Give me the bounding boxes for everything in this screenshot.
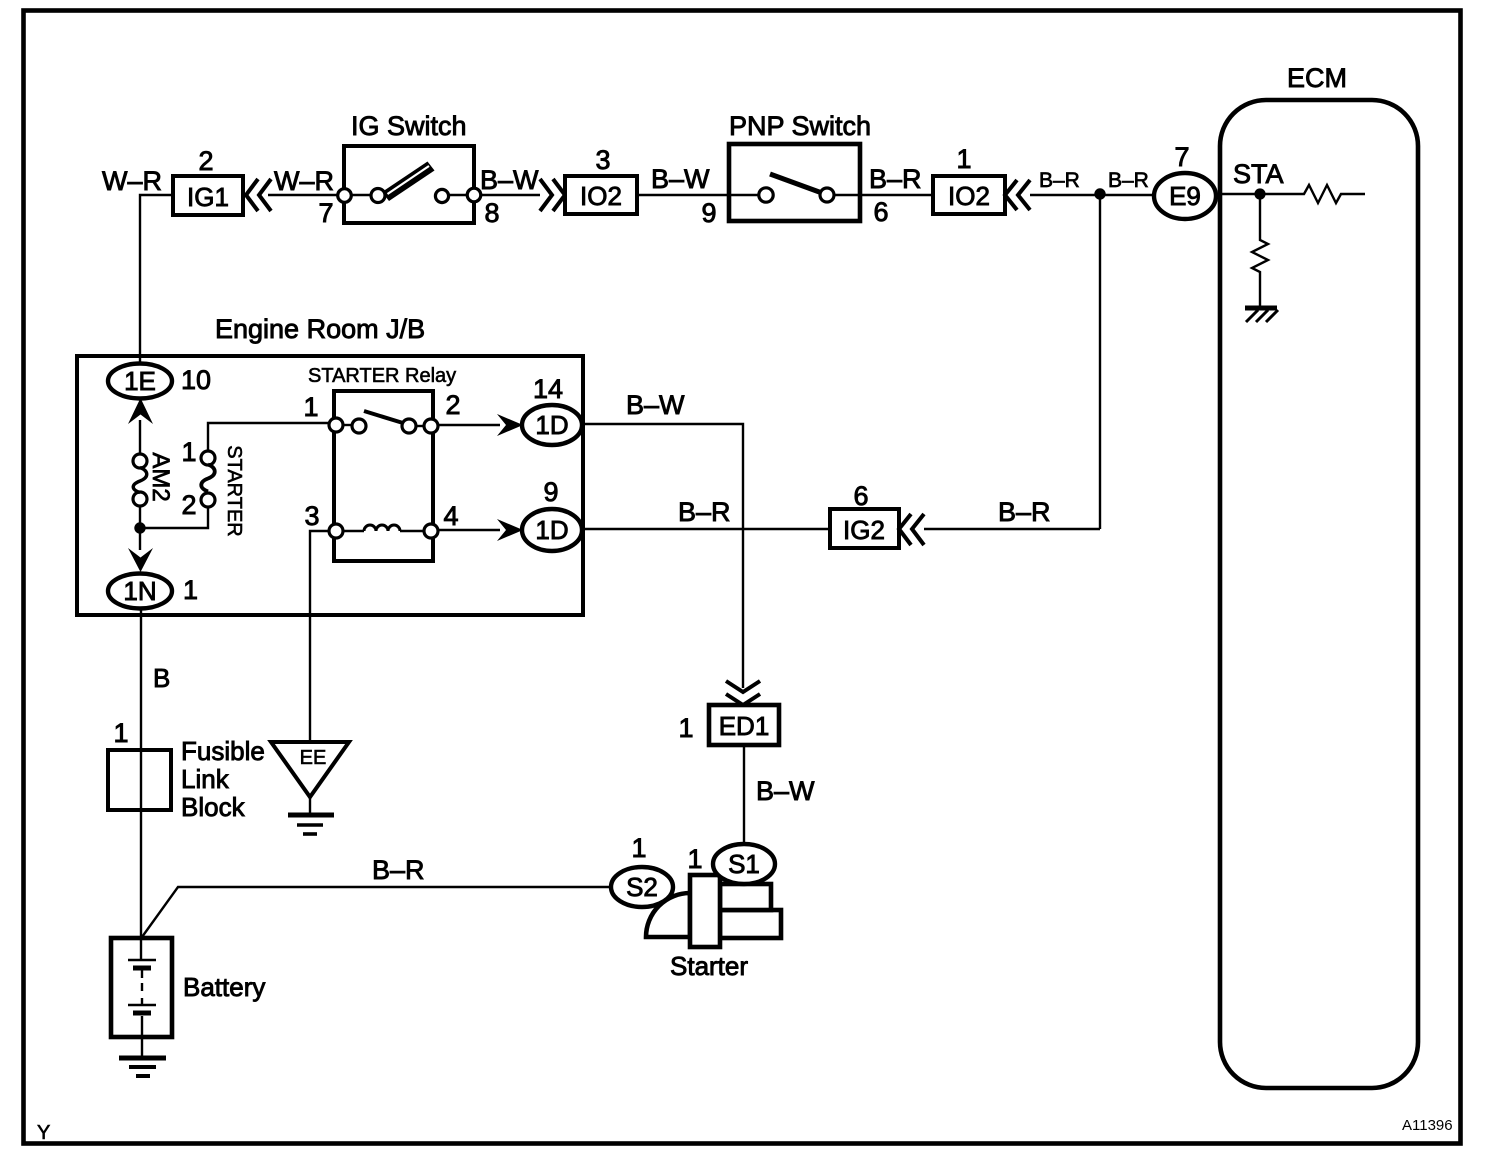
svg-text:7: 7 bbox=[318, 198, 333, 228]
wire AM2 junction to STARTER fuse pin 2 bbox=[140, 506, 208, 528]
svg-text:1D: 1D bbox=[535, 515, 568, 545]
svg-text:7: 7 bbox=[1174, 142, 1189, 172]
svg-text:1: 1 bbox=[687, 844, 702, 874]
svg-text:1N: 1N bbox=[123, 576, 156, 606]
fuse AM2 bbox=[133, 452, 174, 506]
ground EE bbox=[271, 742, 349, 834]
wire STARTER fuse pin 1 to relay pin 1 bbox=[208, 423, 332, 452]
svg-text:E9: E9 bbox=[1169, 181, 1201, 211]
switch SW2 PNP Switch bbox=[701, 111, 888, 228]
svg-text:W–R: W–R bbox=[102, 166, 162, 196]
wire IG2 to junction column bbox=[924, 528, 1100, 530]
wire relay pin 3 to EE ground bbox=[310, 531, 332, 742]
svg-text:B: B bbox=[153, 663, 170, 693]
svg-text:B–R: B–R bbox=[372, 855, 425, 885]
svg-text:IG2: IG2 bbox=[843, 515, 885, 545]
svg-text:9: 9 bbox=[543, 477, 558, 507]
svg-text:STA: STA bbox=[1233, 159, 1284, 189]
svg-text:W–R: W–R bbox=[274, 166, 334, 196]
svg-text:AM2: AM2 bbox=[147, 452, 174, 501]
ground below battery bbox=[119, 1037, 166, 1076]
wire AM2 fuse to junction to down arrow bbox=[139, 505, 141, 550]
svg-text:1: 1 bbox=[678, 713, 693, 743]
svg-text:10: 10 bbox=[181, 365, 211, 395]
wire IG switch pin 8 to IO2 bbox=[478, 194, 540, 196]
svg-text:6: 6 bbox=[873, 197, 888, 227]
wire 1D(9) to IG2 bbox=[582, 528, 830, 530]
fuse STARTER bbox=[181, 437, 245, 537]
ECM U1 bbox=[1220, 63, 1418, 1088]
svg-text:14: 14 bbox=[533, 374, 563, 404]
resistor R2 to ground bbox=[1252, 196, 1268, 307]
svg-text:Fusible: Fusible bbox=[181, 736, 265, 766]
junction block Engine Room J/B bbox=[77, 314, 583, 615]
connector 1D pin 9 bbox=[522, 477, 582, 551]
svg-text:B–R: B–R bbox=[998, 497, 1051, 527]
svg-text:ECM: ECM bbox=[1287, 63, 1347, 93]
svg-text:1: 1 bbox=[956, 144, 971, 174]
wire B-R vertical from junction to IG2 row bbox=[1099, 195, 1101, 529]
svg-text:3: 3 bbox=[595, 145, 610, 175]
connector 1N pin 1 bbox=[108, 574, 198, 609]
connector IG1 pin 2 bbox=[173, 146, 271, 215]
connector S1 pin 1 bbox=[687, 844, 775, 884]
svg-text:1: 1 bbox=[183, 575, 198, 605]
svg-text:1E: 1E bbox=[124, 366, 156, 396]
svg-text:B–R: B–R bbox=[1108, 169, 1149, 192]
svg-text:B–W: B–W bbox=[480, 165, 539, 195]
wire IO2 to E9 bbox=[1030, 194, 1156, 196]
svg-text:1: 1 bbox=[631, 833, 646, 863]
arrow into 1D(14) bbox=[497, 414, 523, 436]
connector E9 pin 7 bbox=[1154, 142, 1216, 219]
svg-text:8: 8 bbox=[484, 198, 499, 228]
connector arrows above ED1 bbox=[726, 681, 760, 705]
svg-text:B–W: B–W bbox=[756, 776, 815, 806]
connector ED1 pin 1 bbox=[678, 705, 779, 745]
svg-text:IG Switch: IG Switch bbox=[351, 111, 467, 141]
wire B-R S2 to battery bbox=[142, 887, 611, 937]
svg-text:B–W: B–W bbox=[626, 390, 685, 420]
fusible link block pin 1 bbox=[108, 718, 265, 822]
svg-text:Starter: Starter bbox=[670, 951, 748, 981]
switch SW1 IG Switch bbox=[318, 111, 499, 228]
relay coil bbox=[342, 530, 364, 532]
wire PNP switch pin 6 to IO2 bbox=[860, 194, 933, 196]
svg-text:B–W: B–W bbox=[651, 164, 710, 194]
svg-text:Y: Y bbox=[37, 1122, 50, 1144]
svg-text:B–R: B–R bbox=[1039, 169, 1080, 192]
svg-text:S1: S1 bbox=[728, 849, 760, 879]
svg-text:S2: S2 bbox=[626, 872, 658, 902]
svg-text:STARTER Relay: STARTER Relay bbox=[308, 365, 456, 387]
svg-text:ED1: ED1 bbox=[719, 711, 770, 741]
relay K1 STARTER Relay bbox=[303, 365, 460, 561]
svg-text:6: 6 bbox=[853, 481, 868, 511]
svg-text:B–R: B–R bbox=[678, 497, 731, 527]
starter M1 bbox=[646, 875, 781, 981]
svg-text:1: 1 bbox=[303, 392, 318, 422]
svg-text:B–R: B–R bbox=[869, 164, 922, 194]
svg-text:Link: Link bbox=[181, 764, 230, 794]
connector S2 pin 1 bbox=[611, 833, 673, 907]
svg-text:9: 9 bbox=[701, 198, 716, 228]
arrow down to 1N bbox=[128, 548, 153, 572]
svg-text:IO2: IO2 bbox=[580, 181, 622, 211]
svg-text:PNP Switch: PNP Switch bbox=[729, 111, 871, 141]
connector 1E pin 10 bbox=[108, 364, 211, 399]
svg-text:1: 1 bbox=[113, 718, 128, 748]
svg-text:IG1: IG1 bbox=[187, 182, 229, 212]
wire IO2 to PNP switch pin 9 bbox=[637, 194, 729, 196]
svg-text:Block: Block bbox=[181, 792, 246, 822]
svg-text:EE: EE bbox=[300, 747, 327, 769]
wire IG1 to IG switch pin 7 bbox=[268, 194, 340, 196]
svg-text:4: 4 bbox=[443, 501, 458, 531]
arrow into 1D(9) bbox=[497, 519, 523, 541]
svg-text:Battery: Battery bbox=[183, 972, 265, 1002]
wire relay pin 2 to 1D(14) bbox=[436, 424, 500, 426]
wire W-R from IG1 to 1E bbox=[140, 195, 173, 364]
connector IO2 pin 1 bbox=[933, 144, 1030, 214]
svg-text:3: 3 bbox=[304, 501, 319, 531]
svg-text:IO2: IO2 bbox=[948, 181, 990, 211]
junction node B-R bbox=[1094, 188, 1105, 199]
svg-text:STARTER: STARTER bbox=[223, 445, 245, 537]
svg-text:A11396: A11396 bbox=[1402, 1117, 1453, 1134]
junction dot AM2/STARTER bbox=[134, 522, 145, 533]
battery BT1 bbox=[111, 938, 265, 1037]
wire E9 to STA node bbox=[1216, 193, 1262, 195]
chassis ground in ECM bbox=[1245, 308, 1278, 322]
wire ED1 to S1 bbox=[743, 745, 745, 846]
arrow up to 1E bbox=[128, 398, 153, 424]
svg-text:1D: 1D bbox=[535, 410, 568, 440]
connector IG2 pin 6 bbox=[830, 481, 924, 548]
connector 1D pin 14 bbox=[522, 374, 582, 445]
wire 1N to battery through fusible link bbox=[140, 608, 142, 938]
resistor R1 in ECM bbox=[1262, 185, 1365, 203]
svg-text:1: 1 bbox=[181, 437, 196, 467]
wire relay pin 4 to 1D(9) bbox=[436, 529, 500, 531]
wire 1D(14) B-W down to ED1 bbox=[582, 424, 743, 688]
svg-text:2: 2 bbox=[181, 490, 196, 520]
svg-text:2: 2 bbox=[445, 390, 460, 420]
wire 1E arrow to AM2 fuse bbox=[139, 420, 141, 455]
svg-text:Engine Room J/B: Engine Room J/B bbox=[215, 314, 425, 344]
node STA bbox=[1233, 159, 1284, 200]
connector IO2 pin 3 bbox=[540, 145, 637, 214]
svg-text:2: 2 bbox=[198, 146, 213, 176]
